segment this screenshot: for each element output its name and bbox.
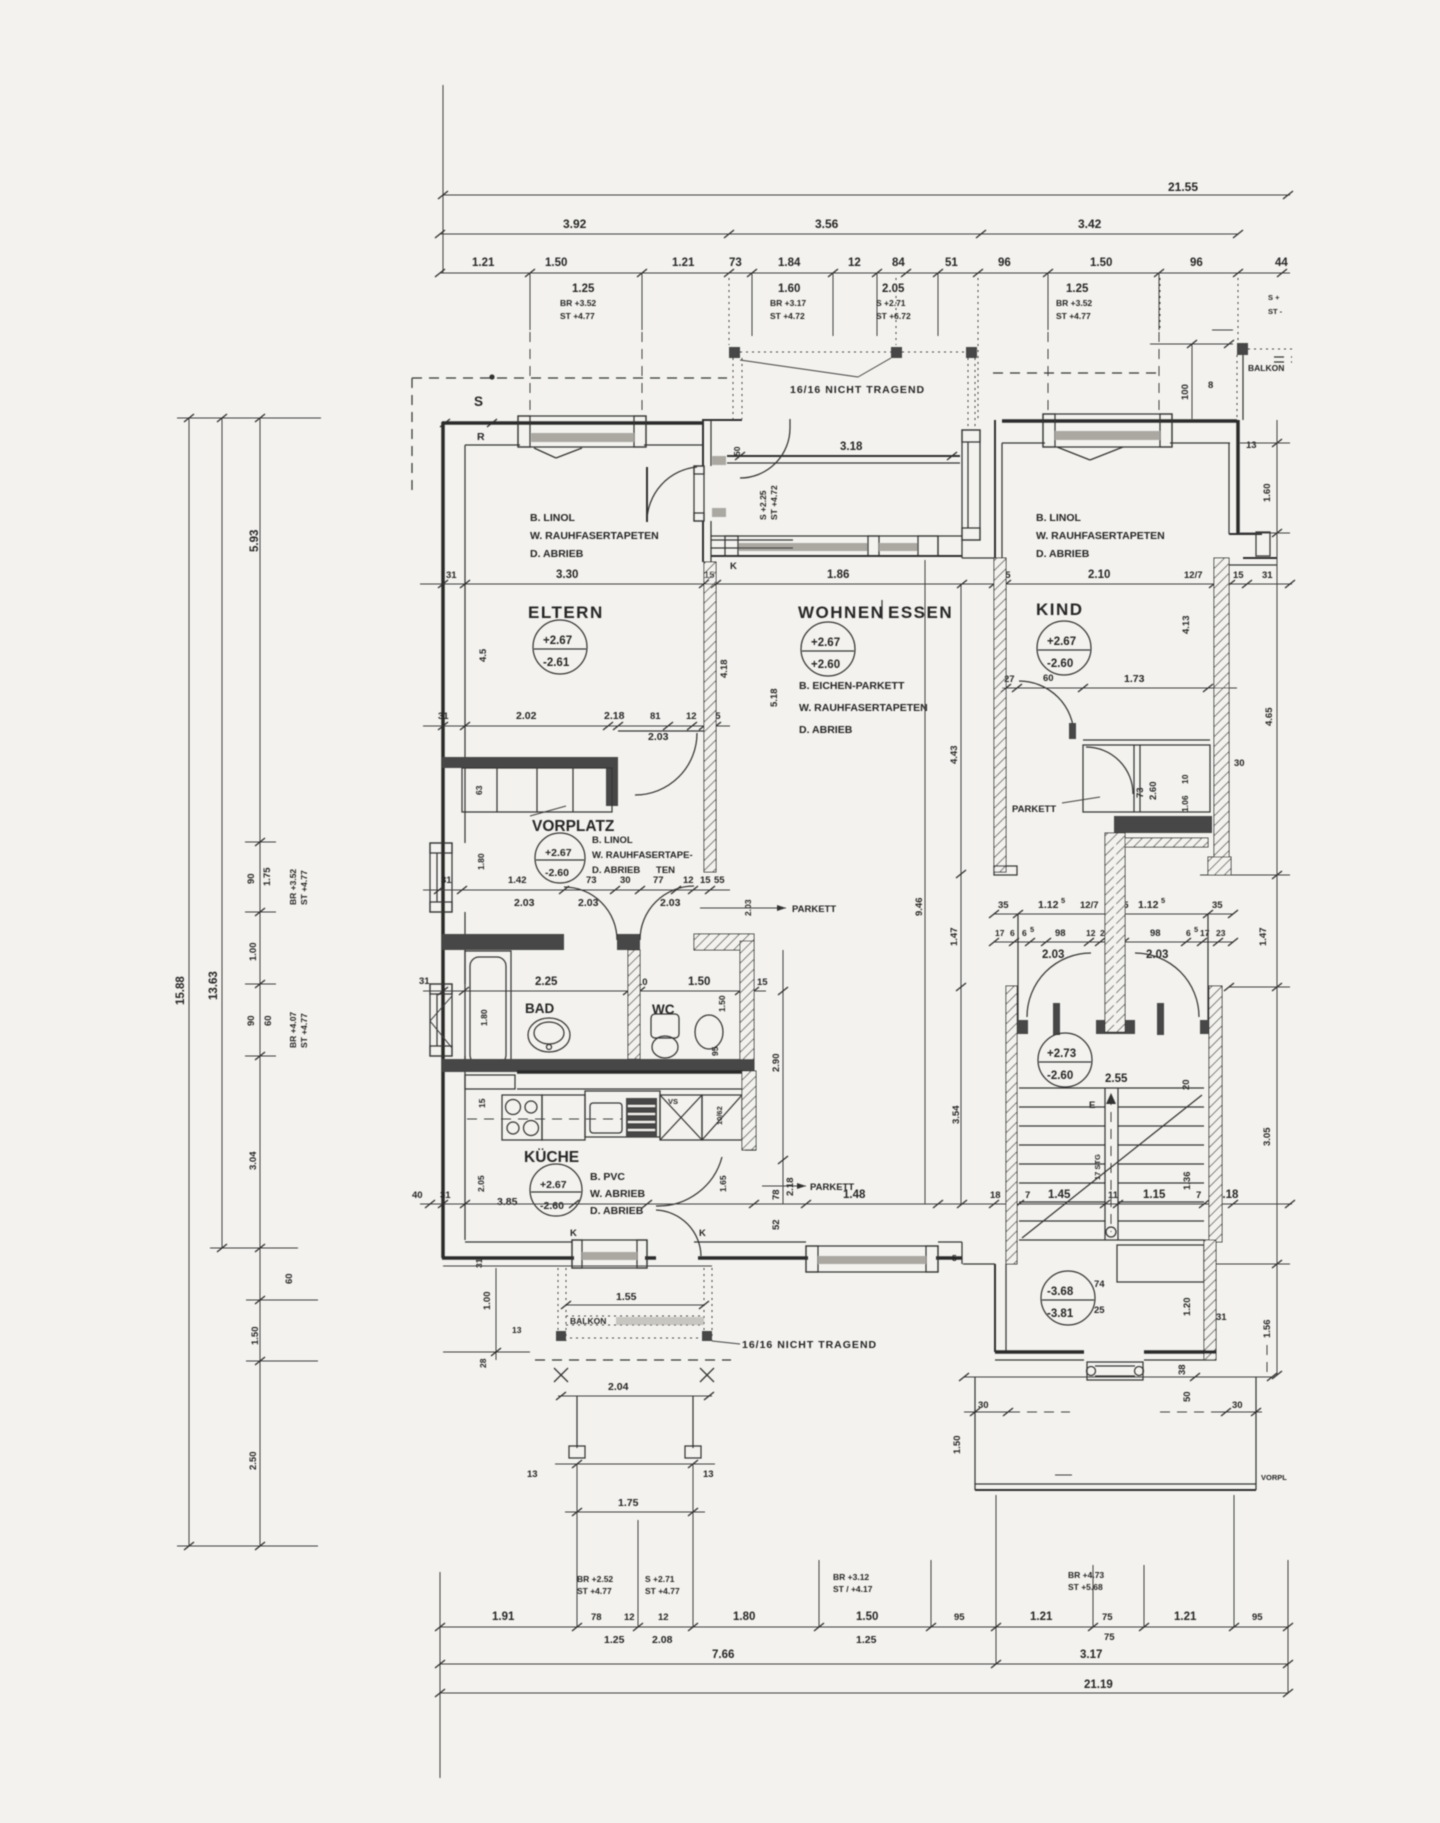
hatched X block right	[1208, 857, 1231, 875]
LEFT WING outer top wall	[442, 421, 704, 425]
svg-text:1.75: 1.75	[618, 1497, 639, 1509]
svg-text:3.05: 3.05	[1262, 1127, 1273, 1146]
kitchen window bottom	[572, 1240, 647, 1268]
svg-text:BR +4.07: BR +4.07	[288, 1012, 298, 1048]
PARKETT note dining	[762, 1185, 806, 1187]
svg-text:1.25: 1.25	[1066, 283, 1089, 295]
svg-text:74: 74	[1094, 1279, 1105, 1290]
svg-text:-2.60: -2.60	[540, 1200, 564, 1212]
stair hall bottom wall + house door	[995, 1350, 1084, 1354]
svg-text:2.03: 2.03	[1042, 949, 1064, 961]
svg-text:15.88: 15.88	[175, 976, 187, 1005]
svg-text:1.80: 1.80	[476, 853, 486, 870]
balcony dim 100	[1191, 344, 1193, 419]
vestibule window west	[694, 466, 704, 521]
door ELTERN-VORPLATZ	[618, 730, 704, 732]
svg-text:5: 5	[1194, 925, 1198, 934]
dashed line right of terrace	[993, 372, 1160, 374]
svg-text:31: 31	[1216, 1312, 1227, 1323]
bottom terrace dim line	[964, 1376, 1272, 1378]
living terrace door band	[711, 535, 962, 537]
svg-text:50: 50	[732, 446, 742, 456]
stair walk line dashed with start circle	[1110, 1095, 1112, 1232]
svg-text:ST +5.68: ST +5.68	[1068, 1582, 1103, 1592]
svg-text:73: 73	[586, 875, 597, 886]
svg-text:5: 5	[1030, 925, 1034, 934]
window W-left-2 (BAD west)	[430, 984, 452, 1056]
left chain cross ticks	[177, 417, 321, 419]
dim 2.04	[558, 1395, 712, 1397]
balcony left dims	[495, 1268, 497, 1360]
svg-text:55: 55	[714, 875, 725, 886]
svg-text:BR +3.52: BR +3.52	[288, 869, 298, 905]
landing level circle	[1041, 1271, 1095, 1325]
door WC arc	[640, 886, 694, 940]
svg-text:2.18: 2.18	[604, 710, 625, 722]
corridor wall hatched (left wing / living)	[704, 562, 716, 872]
svg-text:60: 60	[284, 1273, 295, 1284]
svg-text:1.86: 1.86	[827, 569, 849, 581]
svg-text:2.03: 2.03	[648, 731, 669, 743]
svg-text:28: 28	[478, 1358, 488, 1368]
svg-text:60: 60	[1043, 673, 1054, 684]
svg-text:1.21: 1.21	[672, 257, 695, 269]
svg-text:-3.81: -3.81	[1047, 1308, 1074, 1320]
dashed property line top-left with section mark S	[412, 377, 727, 379]
svg-text:5: 5	[952, 1253, 957, 1263]
svg-text:BR +4.73: BR +4.73	[1068, 1570, 1104, 1580]
ELTERN level circle	[533, 620, 587, 674]
svg-text:12: 12	[848, 257, 861, 269]
svg-text:1.15: 1.15	[1143, 1189, 1166, 1201]
svg-text:-2.61: -2.61	[543, 657, 570, 669]
svg-text:1.45: 1.45	[1048, 1189, 1071, 1201]
svg-text:1.47: 1.47	[1258, 928, 1269, 947]
svg-text:90: 90	[246, 873, 257, 884]
bottom dim tier A	[440, 1626, 1288, 1628]
terrace canopy lines	[740, 360, 858, 377]
svg-text:1.65: 1.65	[718, 1175, 728, 1192]
svg-text:30: 30	[1232, 1400, 1243, 1411]
svg-text:1.50: 1.50	[1090, 257, 1112, 269]
svg-text:1.21: 1.21	[472, 257, 495, 269]
svg-text:1.00: 1.00	[482, 1292, 493, 1311]
svg-text:3.04: 3.04	[248, 1151, 259, 1170]
svg-text:6: 6	[1186, 928, 1191, 938]
svg-text:4.5: 4.5	[478, 648, 489, 662]
svg-text:BALKON: BALKON	[570, 1316, 606, 1326]
toilet	[651, 1014, 679, 1038]
svg-text:B. EICHEN-PARKETT: B. EICHEN-PARKETT	[799, 680, 905, 692]
svg-text:+2.67: +2.67	[540, 1179, 567, 1191]
svg-text:84: 84	[892, 257, 905, 269]
KIND left wall hatched	[994, 558, 1006, 872]
svg-text:PARKETT: PARKETT	[792, 904, 836, 915]
svg-text:B. PVC: B. PVC	[590, 1171, 625, 1183]
svg-text:ST +4.77: ST +4.77	[299, 870, 309, 905]
svg-text:12: 12	[686, 711, 697, 722]
svg-text:15: 15	[757, 977, 768, 988]
svg-text:2.25: 2.25	[535, 976, 558, 988]
door ELTERN from vestibule	[647, 467, 697, 522]
closet dark band	[1114, 816, 1212, 833]
svg-text:-2.60: -2.60	[1047, 1070, 1073, 1082]
svg-text:21.55: 21.55	[1168, 180, 1198, 194]
svg-text:1.84: 1.84	[778, 257, 801, 269]
svg-text:ST +4.72: ST +4.72	[770, 311, 805, 321]
svg-text:81: 81	[650, 711, 661, 722]
kitchen counter back	[517, 1070, 747, 1074]
ELTERN bottom dim line	[423, 725, 730, 727]
svg-text:2.03: 2.03	[578, 897, 599, 909]
balcony below kitchen dotted sides	[557, 1268, 559, 1341]
KIND top wall	[1002, 419, 1237, 423]
svg-text:15: 15	[1233, 570, 1244, 581]
BAD dim line	[423, 990, 766, 992]
svg-text:50: 50	[1182, 1391, 1193, 1402]
bottom terrace outline	[974, 1377, 976, 1490]
svg-text:4.43: 4.43	[949, 746, 960, 765]
svg-text:3.85: 3.85	[497, 1196, 518, 1208]
left dim chain verticals	[188, 418, 190, 1546]
svg-text:77: 77	[653, 875, 664, 886]
svg-text:1.60: 1.60	[778, 283, 800, 295]
svg-text:1.25: 1.25	[604, 1634, 625, 1646]
svg-text:2.02: 2.02	[516, 710, 537, 722]
svg-text:1.50: 1.50	[952, 1436, 963, 1455]
svg-text:BR +3.17: BR +3.17	[770, 298, 806, 308]
svg-text:1.75: 1.75	[262, 867, 273, 886]
vestibule entry door arc	[740, 428, 790, 478]
svg-text:VS: VS	[668, 1097, 678, 1106]
svg-text:D. ABRIEB: D. ABRIEB	[799, 724, 853, 736]
svg-text:1.55: 1.55	[616, 1291, 637, 1303]
svg-text:1.50: 1.50	[688, 976, 710, 988]
svg-text:BALKON: BALKON	[1248, 363, 1284, 373]
svg-text:1.80: 1.80	[479, 1009, 489, 1026]
svg-text:KIND: KIND	[1036, 600, 1084, 619]
hall level circle	[1038, 1033, 1092, 1087]
entry dim line y914	[994, 913, 1233, 915]
svg-text:-2.60: -2.60	[1047, 658, 1073, 670]
KIND right wall hatched	[1214, 558, 1229, 875]
svg-text:12/7: 12/7	[1080, 900, 1099, 911]
svg-text:10: 10	[1180, 774, 1190, 784]
svg-text:7.66: 7.66	[712, 1649, 734, 1661]
entry threshold posts	[1017, 1020, 1028, 1034]
svg-text:78: 78	[771, 1189, 782, 1200]
svg-text:BR +2.52: BR +2.52	[577, 1574, 613, 1584]
svg-text:2.50: 2.50	[248, 1452, 259, 1471]
svg-text:1.12: 1.12	[1138, 899, 1159, 911]
long dim line A y584	[420, 583, 1292, 585]
balcony band	[566, 1315, 704, 1317]
KIND left wall	[994, 420, 996, 558]
svg-text:PARKETT: PARKETT	[1012, 804, 1056, 815]
svg-text:1.36: 1.36	[1182, 1172, 1193, 1191]
wall BAD/WC hatched	[628, 950, 640, 1059]
svg-text:10/62: 10/62	[715, 1106, 724, 1125]
svg-text:1.25: 1.25	[856, 1634, 877, 1646]
svg-text:40: 40	[412, 1190, 423, 1201]
stair hall right wall lower	[1204, 1240, 1216, 1360]
svg-text:2.10: 2.10	[1088, 569, 1110, 581]
svg-text:13: 13	[703, 1469, 714, 1480]
svg-text:BR +3.52: BR +3.52	[560, 298, 596, 308]
bottom dim tier C	[440, 1692, 1288, 1694]
PARKETT note living	[700, 907, 786, 909]
terrace posts top	[729, 347, 740, 358]
counter segment	[542, 1095, 585, 1140]
terrace post guides dotted	[732, 358, 734, 419]
living bottom wall	[756, 1256, 808, 1260]
kitchen right wall hatched	[742, 1071, 756, 1150]
extension dashes from dims down to plan	[529, 332, 531, 412]
kitchen terrace door arc	[656, 1210, 701, 1256]
cabinet 2	[702, 1095, 742, 1140]
svg-text:1.80: 1.80	[733, 1611, 755, 1623]
svg-text:5: 5	[1061, 896, 1065, 905]
LEFT WING bottom wall	[442, 1256, 574, 1260]
svg-text:35: 35	[1212, 900, 1223, 911]
terrace parapet wall	[727, 455, 960, 457]
svg-text:+2.67: +2.67	[543, 635, 572, 647]
svg-text:12: 12	[1086, 928, 1096, 938]
svg-text:12: 12	[624, 1612, 635, 1623]
svg-text:ST +4.72: ST +4.72	[769, 485, 779, 520]
stair hall right wall hatched	[1209, 986, 1222, 1242]
svg-text:S +2.71: S +2.71	[876, 298, 906, 308]
sink unit	[585, 1091, 660, 1137]
svg-text:BR +3.12: BR +3.12	[833, 1572, 869, 1582]
stair center rails	[1104, 1088, 1106, 1240]
svg-text:1.60: 1.60	[1262, 484, 1273, 503]
svg-text:95: 95	[710, 1046, 720, 1056]
svg-text:1.91: 1.91	[492, 1611, 515, 1623]
svg-text:11: 11	[1108, 1190, 1119, 1201]
svg-text:WC: WC	[652, 1002, 675, 1017]
svg-text:K: K	[570, 1228, 577, 1239]
svg-text:31: 31	[1262, 570, 1273, 581]
ground line below bottom wall	[443, 1265, 712, 1267]
svg-text:13: 13	[1246, 440, 1257, 451]
svg-text:R: R	[477, 431, 485, 443]
svg-text:35: 35	[998, 900, 1009, 911]
svg-text:-3.68: -3.68	[1047, 1286, 1074, 1298]
right wall jog + east window	[1229, 533, 1262, 535]
right inner chain ticks	[1240, 442, 1290, 444]
svg-text:KÜCHE: KÜCHE	[524, 1149, 579, 1166]
svg-text:5: 5	[1161, 896, 1165, 905]
svg-text:38: 38	[1177, 1364, 1188, 1375]
window spec block 1	[529, 273, 531, 330]
svg-text:7: 7	[1196, 1190, 1201, 1201]
stair diagonal	[1022, 1095, 1202, 1238]
svg-text:ST / +4.17: ST / +4.17	[833, 1584, 873, 1594]
vestibule steps	[711, 539, 793, 541]
dashed non-bearing line	[535, 1359, 731, 1361]
BAD washbasin	[528, 1018, 570, 1052]
svg-text:S +: S +	[1268, 293, 1280, 302]
KIND door dim line	[1002, 687, 1237, 689]
balcony dim 1.55	[566, 1304, 704, 1306]
svg-text:K: K	[730, 561, 737, 572]
svg-text:31: 31	[438, 711, 449, 722]
svg-text:W. RAUHFASERTAPE-: W. RAUHFASERTAPE-	[592, 850, 693, 861]
svg-text:1.48: 1.48	[843, 1189, 866, 1201]
svg-text:VORPLATZ: VORPLATZ	[532, 818, 615, 835]
svg-text:2.55: 2.55	[1105, 1073, 1128, 1085]
terrace dash-dot edge	[740, 351, 891, 353]
svg-text:13: 13	[527, 1469, 538, 1480]
stove	[502, 1095, 542, 1140]
svg-text:6: 6	[1022, 928, 1027, 938]
KIND right outer wall	[1236, 420, 1240, 534]
svg-text:27: 27	[1004, 674, 1015, 685]
svg-text:17: 17	[995, 928, 1005, 938]
svg-text:5.93: 5.93	[249, 530, 261, 552]
kitchen door arc SE	[656, 1157, 722, 1206]
svg-text:13.63: 13.63	[208, 971, 220, 1000]
living vertical dim line	[924, 560, 926, 1204]
svg-text:2.03: 2.03	[514, 897, 535, 909]
svg-text:B. LINOL: B. LINOL	[530, 512, 575, 524]
svg-text:1.20: 1.20	[1182, 1298, 1193, 1317]
niche vertical dim line	[960, 584, 962, 1204]
living terrace window bottom	[806, 1246, 938, 1272]
svg-text:1.56: 1.56	[1262, 1320, 1273, 1339]
kitchen right side rotated dims	[782, 950, 784, 1204]
svg-text:1.00: 1.00	[248, 943, 259, 962]
svg-text:3.42: 3.42	[1078, 217, 1102, 231]
svg-text:12: 12	[658, 1612, 669, 1623]
svg-text:W. RAUHFASERTAPETEN: W. RAUHFASERTAPETEN	[530, 530, 659, 542]
svg-text:2.05: 2.05	[882, 283, 905, 295]
svg-text:3.92: 3.92	[563, 217, 587, 231]
bathtub	[465, 951, 511, 1070]
X cabinet	[660, 1095, 702, 1140]
balcony posts	[556, 1331, 566, 1341]
svg-text:4.18: 4.18	[719, 660, 730, 679]
svg-text:ST +6.72: ST +6.72	[876, 311, 911, 321]
svg-text:ELTERN: ELTERN	[528, 603, 604, 622]
wall VORPLATZ+BAD/KUECHE	[442, 1059, 754, 1072]
svg-text:98: 98	[1055, 928, 1066, 939]
svg-text:2.05: 2.05	[476, 1175, 486, 1192]
svg-text:ST +4.77: ST +4.77	[299, 1013, 309, 1048]
wall ELTERN/VORPLATZ	[442, 757, 608, 768]
svg-text:7: 7	[1025, 1190, 1030, 1201]
central hatched wall stub	[1105, 833, 1125, 1032]
svg-text:13: 13	[512, 1325, 522, 1335]
svg-text:16/16 NICHT TRAGEND: 16/16 NICHT TRAGEND	[742, 1339, 877, 1351]
KIND closet	[1083, 739, 1210, 741]
niche corner lines	[961, 540, 963, 558]
svg-text:+2.60: +2.60	[811, 659, 840, 671]
svg-text:9.46: 9.46	[914, 898, 925, 917]
svg-text:1.21: 1.21	[1030, 1611, 1053, 1623]
WC washbasin	[695, 1015, 723, 1049]
svg-text:2.60: 2.60	[1148, 782, 1159, 801]
svg-text:25: 25	[1094, 1305, 1105, 1316]
KIND level circle	[1037, 621, 1091, 675]
svg-text:52: 52	[771, 1219, 782, 1230]
niche window east of living	[962, 430, 980, 540]
dim line tier3 small segments	[440, 272, 1290, 274]
svg-text:16/16 NICHT TRAGEND: 16/16 NICHT TRAGEND	[790, 384, 925, 396]
stair closet lower	[1117, 1245, 1204, 1282]
KIND door from hall	[1019, 681, 1074, 736]
svg-text:W. RAUHFASERTAPETEN: W. RAUHFASERTAPETEN	[799, 702, 928, 714]
window spec block 3	[876, 273, 878, 336]
svg-text:96: 96	[1190, 257, 1203, 269]
svg-text:ST -: ST -	[1268, 307, 1283, 316]
bottom dim tier extension lines	[576, 1512, 578, 1627]
svg-text:D. ABRIEB: D. ABRIEB	[530, 548, 584, 560]
svg-text:95: 95	[1252, 1612, 1263, 1623]
svg-text:3.56: 3.56	[815, 217, 839, 231]
svg-text:98: 98	[1150, 928, 1161, 939]
svg-text:VORPL: VORPL	[1261, 1473, 1287, 1482]
svg-text:75: 75	[1102, 1612, 1113, 1623]
svg-text:1.50: 1.50	[250, 1327, 261, 1346]
svg-text:30: 30	[1234, 758, 1245, 769]
svg-text:15: 15	[700, 875, 711, 886]
svg-text:1.12: 1.12	[1038, 899, 1059, 911]
svg-text:B. LINOL: B. LINOL	[1036, 512, 1081, 524]
svg-text:2.90: 2.90	[771, 1054, 782, 1073]
svg-text:1.50: 1.50	[717, 995, 727, 1012]
svg-text:E: E	[1089, 1100, 1095, 1111]
svg-text:60: 60	[263, 1015, 274, 1026]
svg-text:96: 96	[998, 257, 1011, 269]
svg-text:1.06: 1.06	[1180, 795, 1190, 812]
svg-text:+2.67: +2.67	[545, 847, 572, 859]
bottom dim tier B	[440, 1663, 1288, 1665]
svg-text:21.19: 21.19	[1084, 1679, 1113, 1691]
wall WC right hatched	[740, 941, 754, 1071]
svg-text:ST +4.77: ST +4.77	[577, 1586, 612, 1596]
svg-text:30: 30	[620, 875, 631, 886]
svg-text:ST +4.77: ST +4.77	[560, 311, 595, 321]
svg-text:31: 31	[441, 875, 452, 886]
WOHNEN level circle	[801, 622, 855, 676]
bottom terrace dims	[964, 1411, 1010, 1413]
dim 1.75	[576, 1464, 578, 1512]
svg-text:S: S	[474, 394, 483, 409]
svg-text:3.17: 3.17	[1080, 1649, 1102, 1661]
svg-text:K: K	[699, 1228, 706, 1239]
svg-text:ESSEN: ESSEN	[888, 603, 953, 622]
vestibule top wall	[703, 419, 742, 421]
svg-text:-2.60: -2.60	[545, 867, 569, 879]
entry double door arcs	[1027, 953, 1091, 1017]
dim line 21.55	[443, 194, 1290, 196]
svg-text:1.25: 1.25	[572, 283, 595, 295]
svg-text:3.18: 3.18	[840, 441, 863, 453]
svg-text:51: 51	[945, 257, 958, 269]
X marks	[554, 1368, 568, 1382]
svg-text:18: 18	[990, 1190, 1001, 1201]
svg-text:31: 31	[440, 1190, 451, 1201]
svg-text:90: 90	[246, 1015, 257, 1026]
svg-text:73: 73	[1135, 787, 1146, 798]
svg-text:D. ABRIEB: D. ABRIEB	[590, 1205, 644, 1217]
svg-text:ST +4.77: ST +4.77	[1056, 311, 1091, 321]
svg-text:1.42: 1.42	[508, 875, 527, 886]
wardrobe VORPLATZ	[462, 768, 612, 812]
svg-text:3.30: 3.30	[556, 569, 578, 581]
